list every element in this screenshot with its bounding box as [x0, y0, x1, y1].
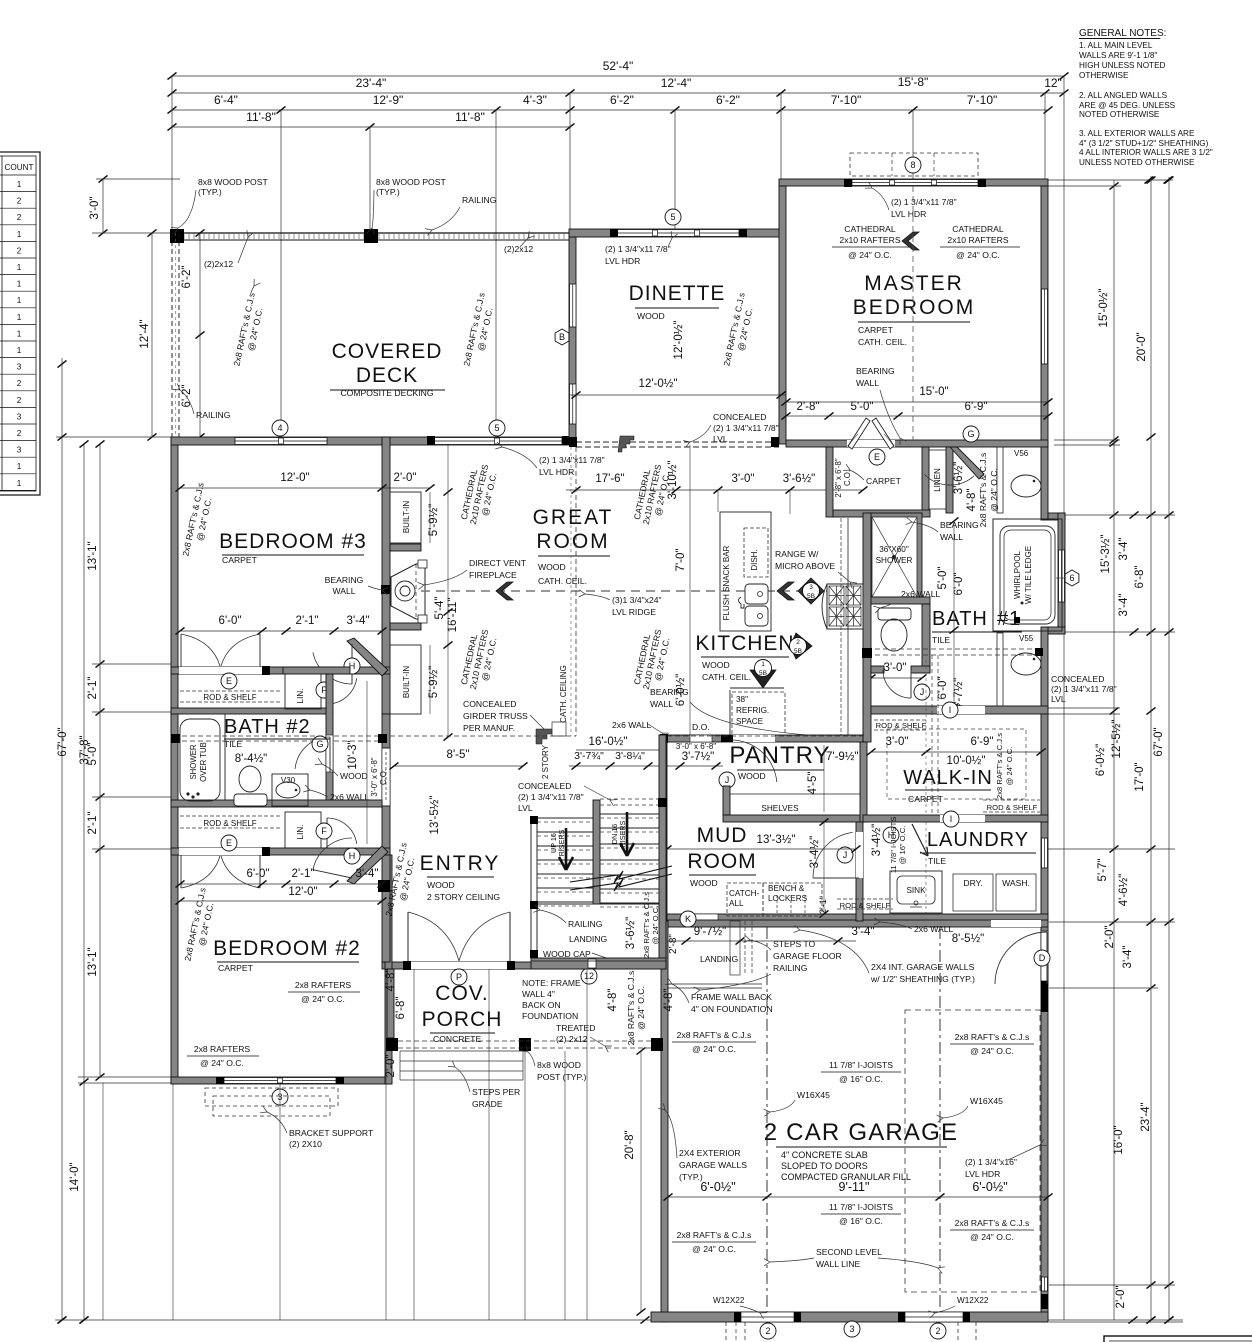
dinette west wall: [569, 237, 576, 441]
svg-text:4" (3 1/2" STUD+1/2" SHEATHING: 4" (3 1/2" STUD+1/2" SHEATHING): [1079, 139, 1209, 148]
svg-text:(2) 1 3/4"x11 7/8": (2) 1 3/4"x11 7/8": [1051, 684, 1117, 694]
cased opening dashes central wall: [385, 752, 387, 802]
svg-text:J: J: [725, 775, 730, 785]
covered deck top railing: [172, 232, 570, 234]
svg-text:2x8 RAFT's & C.J.s: 2x8 RAFT's & C.J.s: [978, 453, 988, 528]
svg-text:10'-0½": 10'-0½": [947, 755, 986, 767]
svg-text:D: D: [1039, 953, 1046, 963]
landing bottom wall: [531, 958, 666, 969]
svg-text:4" CONCRETE SLAB: 4" CONCRETE SLAB: [781, 1150, 868, 1160]
svg-text:LVL: LVL: [518, 803, 533, 813]
svg-text:CATH. CEILING: CATH. CEILING: [559, 665, 568, 723]
svg-text:STEPS TO: STEPS TO: [773, 939, 816, 949]
svg-text:WALL LINE: WALL LINE: [816, 1259, 861, 1269]
svg-text:11 7/8" I-JOISTS: 11 7/8" I-JOISTS: [829, 1060, 893, 1070]
svg-text:13'-1": 13'-1": [87, 947, 99, 976]
mud west wall 2story: [660, 742, 667, 921]
master double door leaves: [848, 418, 870, 449]
svg-text:@ 24" O.C.: @ 24" O.C.: [970, 1046, 1014, 1056]
svg-text:12: 12: [584, 971, 594, 981]
svg-text:BENCH &: BENCH &: [768, 884, 805, 893]
svg-text:ROD & SHELF: ROD & SHELF: [840, 901, 891, 910]
svg-text:15'-8": 15'-8": [898, 75, 929, 89]
right horizontal stubs: [1048, 179, 1173, 181]
svg-text:BUILT-IN: BUILT-IN: [402, 501, 411, 534]
svg-text:@ 24" O.C.: @ 24" O.C.: [301, 994, 345, 1004]
svg-text:RANGE W/: RANGE W/: [775, 549, 819, 559]
svg-text:CARPET: CARPET: [218, 963, 254, 973]
svg-text:ROD & SHELF: ROD & SHELF: [203, 693, 256, 702]
fireplace direct vent: [391, 564, 425, 619]
svg-text:2'-0": 2'-0": [394, 472, 417, 484]
svg-text:MUD: MUD: [697, 824, 748, 847]
svg-text:PANTRY: PANTRY: [729, 742, 830, 769]
svg-text:5'-0": 5'-0": [87, 743, 99, 766]
svg-text:LVL: LVL: [1051, 694, 1066, 704]
porch left wall: [387, 969, 394, 1038]
svg-text:67'-0": 67'-0": [57, 727, 69, 756]
title block corner bottom right: [1104, 1336, 1252, 1342]
svg-text:3: 3: [17, 412, 22, 421]
svg-text:4 ALL INTERIOR WALLS ARE 3 1/2: 4 ALL INTERIOR WALLS ARE 3 1/2": [1079, 148, 1213, 157]
bath2 south wall: [171, 800, 382, 807]
svg-text:DRY.: DRY.: [963, 878, 982, 888]
svg-text:CONCEALED: CONCEALED: [463, 699, 516, 709]
master ridge dash: [912, 186, 914, 440]
svg-text:6'-0": 6'-0": [937, 677, 949, 700]
svg-text:1: 1: [17, 329, 22, 338]
svg-text:(2) 1 3/4"x11 7/8": (2) 1 3/4"x11 7/8": [518, 792, 584, 802]
svg-text:LVL HDR: LVL HDR: [605, 256, 640, 266]
svg-text:RISERS: RISERS: [618, 820, 627, 847]
fireplace wall above: [390, 544, 421, 551]
second level dashed rect: [905, 1010, 1040, 1292]
svg-text:GARAGE FLOOR: GARAGE FLOOR: [773, 951, 842, 961]
svg-text:13'-3½": 13'-3½": [757, 834, 796, 846]
count table: [0, 152, 40, 495]
svg-text:23'-4": 23'-4": [1140, 1102, 1152, 1131]
bedroom3 double door E: [180, 634, 182, 667]
pantry door arc: [729, 740, 776, 782]
svg-text:(2) 2x12: (2) 2x12: [556, 1034, 588, 1044]
svg-text:3'-0": 3'-0": [886, 736, 909, 748]
svg-text:4'-8": 4'-8": [966, 489, 978, 512]
svg-text:2X4 EXTERIOR: 2X4 EXTERIOR: [679, 1148, 741, 1158]
svg-text:@ 16" O.C.: @ 16" O.C.: [839, 1074, 883, 1084]
svg-text:10'-3": 10'-3": [347, 740, 359, 769]
garage top wall: [668, 920, 1048, 927]
hall walls below bedroom3: [283, 667, 350, 674]
bedroom3 dim 12'-0 2'-0: [180, 487, 430, 489]
svg-text:D.O.: D.O.: [692, 722, 710, 732]
master south wall: [786, 440, 1048, 447]
svg-text:GREAT: GREAT: [533, 506, 614, 529]
svg-text:2x8 RAFTERS: 2x8 RAFTERS: [295, 980, 352, 990]
svg-text:3'-4": 3'-4": [1118, 538, 1130, 561]
svg-text:SLOPED TO DOORS: SLOPED TO DOORS: [781, 1161, 868, 1171]
toilet room bath1: [867, 597, 930, 604]
svg-text:CONCEALED: CONCEALED: [713, 412, 766, 422]
kitchen section marker right: [790, 633, 812, 659]
svg-text:WALK-IN: WALK-IN: [903, 767, 993, 789]
svg-text:KITCHEN: KITCHEN: [695, 632, 794, 655]
stair left railing: [530, 818, 532, 958]
svg-text:1: 1: [17, 313, 22, 322]
svg-text:C.O.: C.O.: [379, 769, 388, 785]
garage west wall: [661, 921, 668, 1322]
walkin-laundry wall: [863, 815, 1048, 822]
svg-text:H: H: [349, 851, 356, 861]
svg-text:4'-6½": 4'-6½": [1118, 874, 1130, 907]
svg-text:BEARING: BEARING: [856, 366, 895, 376]
svg-text:WALL: WALL: [332, 586, 355, 596]
svg-text:ARE @ 45 DEG. UNLESS: ARE @ 45 DEG. UNLESS: [1079, 101, 1176, 110]
svg-text:WALL 4": WALL 4": [522, 989, 555, 999]
bedroom2 south wall: [171, 1077, 392, 1084]
svg-text:(2)2x12: (2)2x12: [504, 244, 533, 254]
svg-text:REFRIG.: REFRIG.: [736, 706, 769, 715]
laundry ijoist arrow: [912, 824, 928, 856]
svg-text:5'-0": 5'-0": [937, 567, 949, 590]
svg-text:CATH. CEIL.: CATH. CEIL.: [858, 337, 907, 347]
svg-text:WOOD: WOOD: [690, 878, 718, 888]
svg-text:ROD & SHELF: ROD & SHELF: [987, 803, 1038, 812]
svg-text:TREATED: TREATED: [556, 1023, 595, 1033]
svg-text:5B: 5B: [759, 670, 767, 677]
svg-text:20'-0": 20'-0": [1136, 332, 1148, 361]
svg-text:3'-4": 3'-4": [347, 615, 370, 627]
svg-text:2: 2: [17, 246, 22, 255]
svg-text:12": 12": [1044, 76, 1062, 90]
svg-text:PER MANUF.: PER MANUF.: [463, 723, 515, 733]
shower 36x60: [867, 513, 922, 601]
svg-text:CONCEALED: CONCEALED: [518, 781, 571, 791]
svg-text:2 STORY CEILING: 2 STORY CEILING: [427, 892, 500, 902]
svg-text:2'-8": 2'-8": [668, 934, 679, 954]
svg-text:W16X45: W16X45: [970, 1096, 1003, 1106]
svg-text:2x6 WALL: 2x6 WALL: [612, 720, 652, 730]
svg-text:3'-4": 3'-4": [356, 868, 379, 880]
svg-text:BUILT-IN: BUILT-IN: [402, 666, 411, 699]
svg-text:3'-0": 3'-0": [732, 473, 755, 485]
svg-text:ENTRY: ENTRY: [420, 852, 501, 875]
svg-text:2x10 RAFTERS: 2x10 RAFTERS: [839, 235, 900, 245]
svg-text:3'-6½": 3'-6½": [953, 462, 965, 495]
bedroom2 north wall: [171, 848, 390, 855]
svg-text:2x8 RAFT's & C.J.s: 2x8 RAFT's & C.J.s: [995, 733, 1004, 799]
svg-text:12'-5½": 12'-5½": [1111, 720, 1123, 759]
master west wall: [779, 186, 786, 444]
stair break line: [570, 866, 672, 883]
svg-text:11'-8": 11'-8": [246, 110, 276, 124]
svg-text:(TYP.): (TYP.): [376, 187, 400, 197]
hex window tag B: [555, 329, 569, 345]
kitchen section marker below: [750, 670, 776, 688]
linen closet upper: [285, 674, 321, 709]
svg-text:WOOD: WOOD: [702, 660, 730, 670]
bath2 hall wall: [326, 674, 333, 806]
svg-text:TILE: TILE: [224, 739, 242, 749]
svg-text:4'-8": 4'-8": [385, 969, 397, 992]
svg-text:2'-1": 2'-1": [87, 677, 99, 700]
svg-text:6'-4": 6'-4": [214, 93, 238, 107]
svg-text:@ 24" O.C.: @ 24" O.C.: [848, 250, 892, 260]
svg-text:LVL HDR: LVL HDR: [965, 1169, 1000, 1179]
svg-text:8x8 WOOD: 8x8 WOOD: [537, 1060, 581, 1070]
svg-text:GIRDER TRUSS: GIRDER TRUSS: [463, 711, 528, 721]
svg-text:@ 16" O.C.: @ 16" O.C.: [898, 826, 907, 865]
svg-text:12'-0½": 12'-0½": [673, 321, 685, 360]
svg-text:5'-4": 5'-4": [434, 597, 446, 620]
svg-text:16'-0½": 16'-0½": [589, 736, 628, 748]
svg-text:CATH. CEIL.: CATH. CEIL.: [702, 672, 751, 682]
svg-text:6'-9": 6'-9": [965, 401, 988, 413]
right stair flight DN: [600, 798, 659, 800]
svg-text:(2) 1 3/4"x16": (2) 1 3/4"x16": [965, 1157, 1017, 1167]
svg-text:FIREPLACE: FIREPLACE: [469, 570, 517, 580]
svg-text:3'-4": 3'-4": [1118, 594, 1130, 617]
walkin dashed ceiling box: [887, 729, 1026, 799]
right margin vertical dims: [1113, 180, 1115, 1320]
svg-text:9'-11": 9'-11": [839, 1180, 870, 1194]
svg-text:3'-4": 3'-4": [1122, 946, 1134, 969]
svg-text:RAILING: RAILING: [773, 963, 808, 973]
svg-text:6'-8": 6'-8": [1134, 566, 1146, 589]
svg-text:1: 1: [17, 296, 22, 305]
svg-text:2x8 RAFT's & C.J.s: 2x8 RAFT's & C.J.s: [677, 1030, 752, 1040]
kitchen counter dash lines: [847, 518, 849, 735]
laundry dryer washer: [953, 874, 993, 911]
attic dashed line bath1: [867, 648, 1041, 650]
svg-text:2'-1": 2'-1": [292, 868, 315, 880]
svg-text:4'-5": 4'-5": [807, 772, 819, 795]
svg-text:20'-8": 20'-8": [624, 1130, 636, 1159]
svg-text:2 CAR GARAGE: 2 CAR GARAGE: [764, 1119, 958, 1146]
svg-text:2'-1": 2'-1": [296, 615, 319, 627]
svg-text:@ 24" O.C.: @ 24" O.C.: [989, 468, 999, 512]
svg-text:POST (TYP.): POST (TYP.): [537, 1072, 586, 1082]
svg-text:6'-8": 6'-8": [395, 997, 407, 1020]
svg-text:V56: V56: [1014, 449, 1029, 458]
svg-text:CATCH-: CATCH-: [729, 889, 760, 898]
svg-text:23'-4": 23'-4": [356, 76, 387, 90]
kitchen island: [720, 512, 771, 631]
svg-text:E: E: [226, 676, 232, 686]
hex window tag 6: [1065, 570, 1079, 586]
svg-text:@ 24" O.C.: @ 24" O.C.: [970, 1232, 1014, 1242]
svg-text:SECOND LEVEL: SECOND LEVEL: [816, 1247, 882, 1257]
svg-text:COMPOSITE DECKING: COMPOSITE DECKING: [340, 388, 433, 398]
svg-text:5: 5: [494, 423, 499, 433]
entry double door: [407, 912, 409, 962]
svg-text:1: 1: [17, 180, 22, 189]
svg-text:1: 1: [17, 479, 22, 488]
svg-text:RAILING: RAILING: [462, 195, 497, 205]
svg-text:LANDING: LANDING: [700, 954, 739, 964]
svg-text:(2) 1 3/4"x11 7/8": (2) 1 3/4"x11 7/8": [605, 244, 671, 254]
entry south wall: [382, 962, 666, 969]
svg-text:4: 4: [277, 423, 282, 433]
svg-text:6'-0": 6'-0": [219, 615, 242, 627]
svg-text:6'-0½": 6'-0½": [700, 1180, 735, 1194]
dimension line 52'-4" overall top: [172, 75, 1064, 77]
svg-text:1. ALL MAIN LEVEL: 1. ALL MAIN LEVEL: [1079, 41, 1153, 50]
svg-text:12'-0": 12'-0": [288, 886, 317, 898]
svg-text:6'-0": 6'-0": [247, 868, 270, 880]
bedroom3 south wall: [171, 667, 390, 674]
kitchen bearing wall: [863, 513, 871, 742]
svg-text:7'-10": 7'-10": [967, 93, 998, 107]
svg-text:WALL: WALL: [856, 378, 879, 388]
svg-text:2'-8": 2'-8": [797, 401, 820, 413]
mud room dim: [667, 848, 856, 850]
svg-text:2'-0": 2'-0": [385, 1055, 397, 1078]
svg-text:BEARING: BEARING: [940, 520, 979, 530]
svg-text:15'-0": 15'-0": [919, 386, 948, 398]
left dim 67'-0" vertical: [61, 358, 63, 1320]
svg-text:GRADE: GRADE: [472, 1099, 503, 1109]
svg-text:7'-9½": 7'-9½": [826, 751, 859, 763]
svg-text:6'-0½": 6'-0½": [1095, 744, 1107, 777]
pantry walls: [723, 786, 730, 815]
porch steps: [400, 1050, 523, 1052]
bath2 door G: [295, 737, 330, 769]
bedroom2 east wall / porch west wall: [385, 855, 392, 1084]
svg-text:C.O.: C.O.: [843, 470, 852, 486]
svg-text:LANDING: LANDING: [569, 934, 608, 944]
deck posts 8x8: [170, 229, 184, 243]
svg-text:WHIRLPOOL: WHIRLPOOL: [1013, 550, 1022, 599]
svg-text:WOOD: WOOD: [738, 771, 766, 781]
built-in lower: [390, 645, 421, 714]
svg-text:I: I: [949, 705, 952, 715]
svg-text:ROOM: ROOM: [536, 530, 609, 553]
svg-text:BATH: BATH: [932, 608, 988, 630]
svg-text:SINK: SINK: [906, 886, 926, 895]
svg-text:MASTER: MASTER: [864, 272, 964, 295]
garage door projection dashes: [725, 1322, 727, 1342]
dimension line tier2 23'-4" / 12'-4" / 15'-8" / 12": [172, 92, 1064, 94]
kitchen ridge section marker diamond: [798, 578, 824, 604]
svg-text:E: E: [874, 452, 880, 462]
svg-text:3'-0": 3'-0": [884, 662, 907, 674]
svg-text:7'-0": 7'-0": [675, 549, 687, 572]
svg-text:2: 2: [17, 396, 22, 405]
svg-text:8'-5": 8'-5": [447, 749, 470, 761]
svg-text:13'-5½": 13'-5½": [429, 796, 441, 835]
refrigerator space dashed: [732, 692, 785, 738]
garage door D arc: [995, 932, 1047, 984]
attic dash pantry: [667, 735, 863, 737]
svg-text:2x8 RAFT's & C.J.s: 2x8 RAFT's & C.J.s: [642, 892, 651, 958]
svg-text:52'-4": 52'-4": [603, 59, 634, 73]
svg-text:11'-8": 11'-8": [455, 110, 485, 124]
garage east wall: [1041, 921, 1048, 1322]
svg-text:9'-7½": 9'-7½": [694, 926, 727, 938]
svg-text:OTHERWISE: OTHERWISE: [1079, 71, 1129, 80]
svg-text:B: B: [559, 332, 565, 342]
laundry door J arc: [811, 877, 856, 879]
svg-text:2'-0": 2'-0": [1104, 926, 1116, 949]
master bottom dims: [786, 401, 1048, 403]
kitchen top dims: [717, 491, 719, 512]
svg-text:SPACE: SPACE: [736, 717, 764, 726]
svg-text:CONCEALED: CONCEALED: [1051, 674, 1104, 684]
svg-text:LVL HDR: LVL HDR: [891, 209, 926, 219]
svg-text:COVERED: COVERED: [332, 340, 443, 363]
svg-text:2x8 RAFT's & C.J.s: 2x8 RAFT's & C.J.s: [955, 1218, 1030, 1228]
mud rod shelf: [837, 898, 893, 900]
kitchen ridge symbol: [777, 582, 794, 600]
svg-text:3'-7½": 3'-7½": [682, 751, 715, 763]
svg-text:2x8 RAFT's & C.J.s: 2x8 RAFT's & C.J.s: [626, 971, 636, 1046]
svg-text:6'-2": 6'-2": [610, 93, 634, 107]
master ridge symbol: [902, 232, 919, 250]
top extension lines: [171, 76, 173, 233]
bedroom2 double door E: [180, 855, 182, 888]
svg-text:CARPET: CARPET: [222, 555, 258, 565]
left dim 37'-8" vertical: [83, 444, 85, 1320]
svg-text:I: I: [950, 814, 953, 824]
svg-text:PORCH: PORCH: [422, 1008, 503, 1031]
porch treated band dashed: [398, 1040, 651, 1042]
svg-text:LIN.: LIN.: [296, 825, 305, 840]
mud south dims: [667, 940, 856, 942]
bench lockers dashed: [727, 883, 763, 916]
svg-text:2'-1": 2'-1": [818, 896, 828, 914]
hall dim texts west wing: [180, 630, 382, 632]
svg-text:8'-4½": 8'-4½": [235, 753, 268, 765]
svg-text:ROOM: ROOM: [687, 850, 756, 873]
svg-text:WOOD: WOOD: [427, 880, 455, 890]
svg-text:F: F: [321, 826, 327, 836]
whirlpool tub: [993, 519, 1062, 631]
svg-text:2x6 WALL: 2x6 WALL: [330, 792, 370, 802]
svg-text:6'-9": 6'-9": [971, 736, 994, 748]
svg-text:2x8 RAFT's & C.J.s: 2x8 RAFT's & C.J.s: [677, 1230, 752, 1240]
east wall below bay: [1041, 627, 1048, 921]
deck left railing dashed: [171, 233, 173, 437]
bracket support dashed: [205, 1088, 338, 1106]
svg-text:BEARING: BEARING: [325, 575, 364, 585]
left stair flight UP: [537, 817, 593, 819]
svg-text:LVL: LVL: [713, 434, 728, 444]
svg-text:LIN.: LIN.: [296, 689, 305, 704]
svg-text:DISH.: DISH.: [750, 549, 759, 570]
svg-text:MICRO ABOVE: MICRO ABOVE: [775, 561, 835, 571]
svg-text:3: 3: [809, 584, 813, 591]
svg-text:2'-0": 2'-0": [1115, 1286, 1127, 1309]
svg-text:12'-9": 12'-9": [373, 93, 404, 107]
svg-text:6'-2": 6'-2": [181, 266, 193, 289]
svg-text:(2) 1 3/4"x11 7/8": (2) 1 3/4"x11 7/8": [539, 455, 605, 465]
svg-text:2'-1": 2'-1": [87, 812, 99, 835]
svg-text:2: 2: [17, 429, 22, 438]
hall cased opening dashes: [825, 460, 827, 500]
svg-text:4'-8": 4'-8": [663, 989, 675, 1012]
svg-text:FLUSH SNACK BAR: FLUSH SNACK BAR: [722, 545, 731, 620]
svg-text:6'-0½": 6'-0½": [675, 674, 687, 707]
svg-text:BEDROOM #3: BEDROOM #3: [219, 530, 367, 553]
left horizontal stubs: [96, 178, 180, 180]
svg-text:2'-8" x 6'-8": 2'-8" x 6'-8": [834, 458, 843, 498]
svg-text:@ 24" O.C.: @ 24" O.C.: [200, 1058, 244, 1068]
svg-text:3'-10½": 3'-10½": [667, 461, 679, 500]
bedroom2 corner diagonal wall with door H: [347, 846, 388, 884]
svg-text:RAILING: RAILING: [568, 919, 603, 929]
svg-text:G: G: [316, 739, 323, 749]
laundry sink: [890, 871, 942, 913]
